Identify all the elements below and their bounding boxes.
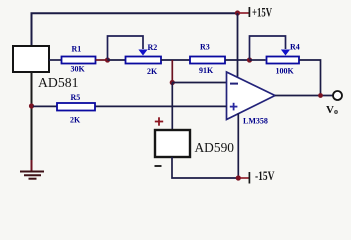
svg-text:2K: 2K: [147, 67, 158, 76]
wire R4 wiper loop: [250, 36, 286, 59]
svg-text:+15V: +15V: [252, 6, 272, 20]
wire R2 wiper loop: [108, 36, 144, 59]
svg-text:o: o: [334, 107, 338, 116]
svg-text:R5: R5: [71, 93, 81, 102]
power terminal tick +15V: [248, 7, 250, 17]
terminal Vo circle: [333, 91, 342, 100]
node B junction dot at inverting input: [170, 80, 175, 85]
svg-text:R1: R1: [72, 45, 82, 54]
potentiometer R2 wiper arrow: [138, 50, 147, 56]
wire R4 right to output node: [299, 60, 321, 96]
wire op-amp V- pin down to -15V rail: [237, 113, 239, 178]
wire top +15V rail horizontal with corner down to AD581: [32, 13, 238, 45]
node AD581/R5 junction dot: [29, 103, 34, 108]
svg-text:R2: R2: [148, 43, 158, 52]
svg-text:LM358: LM358: [243, 117, 268, 126]
wire R1 to node A: [96, 59, 108, 61]
wire down from R2/R3 tee to inverting node: [171, 60, 173, 83]
svg-text:R4: R4: [290, 43, 300, 52]
svg-text:2K: 2K: [70, 116, 81, 125]
svg-text:100K: 100K: [276, 67, 295, 76]
power terminal tick -15V: [248, 172, 250, 184]
op-amp minus sign: [230, 83, 238, 85]
wire +15V rail down to op-amp V+ pin: [237, 13, 239, 77]
node C junction dot R3/R4: [247, 57, 252, 62]
resistor R5 body: [57, 103, 95, 111]
wire node B down to AD590: [171, 83, 173, 131]
svg-text:30K: 30K: [71, 65, 86, 74]
svg-text:AD590: AD590: [195, 141, 235, 156]
wire op-amp output to Vo terminal: [275, 95, 333, 97]
op-amp U1 AD581 box: [13, 46, 49, 72]
node A junction dot R1/R2: [105, 57, 110, 62]
svg-text:-15V: -15V: [255, 169, 275, 183]
wire AD581 output to R1: [49, 59, 62, 61]
op-amp U2 triangle: [227, 72, 276, 120]
wire red stub to -15V terminal: [238, 177, 249, 179]
wire AD590 bottom to -15V rail: [172, 157, 238, 178]
svg-text:V: V: [326, 104, 334, 116]
node -15V junction dot: [236, 175, 241, 180]
wire red stub to +15V terminal: [238, 12, 250, 14]
wire AD581 bottom to ground rail: [31, 72, 33, 160]
wire node C to R4 body: [250, 59, 266, 61]
node output junction dot: [318, 93, 323, 98]
wire ground rail lower maroon part: [31, 160, 33, 171]
wire R3 to R4 node: [225, 59, 250, 61]
svg-text:R3: R3: [200, 43, 210, 52]
wire R2 to R3: [161, 59, 190, 61]
svg-text:91K: 91K: [199, 66, 214, 75]
wire inverting input to op-amp: [172, 82, 226, 84]
ground: [20, 172, 44, 179]
label + polarity of AD590: [155, 117, 163, 125]
op-amp plus sign: [230, 103, 238, 111]
node +15V junction dot: [235, 10, 240, 15]
wire non-inverting input from R5: [33, 105, 227, 107]
svg-text:AD581: AD581: [38, 76, 79, 91]
resistor R1 body: [62, 57, 96, 64]
resistor R3 body: [190, 57, 225, 64]
potentiometer R4 body: [267, 57, 300, 64]
sensor AD590 box: [155, 130, 190, 157]
potentiometer R4 wiper arrow: [281, 50, 290, 56]
wire node A to R2 body: [108, 59, 126, 61]
potentiometer R2 body: [126, 57, 162, 64]
label - polarity of AD590: [155, 165, 162, 167]
